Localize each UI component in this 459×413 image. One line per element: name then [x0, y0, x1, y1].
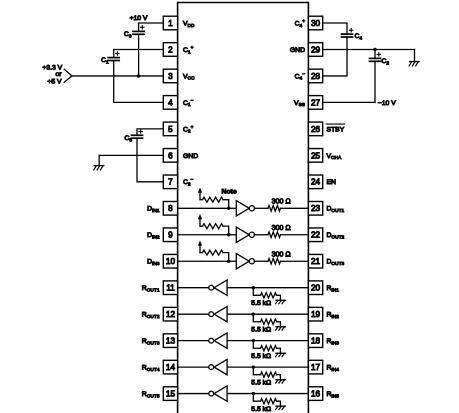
pin 27 label VSS [294, 100, 305, 108]
wire R to pin22 [281, 234, 309, 236]
svg-text:5.5 kΩ: 5.5 kΩ [251, 300, 271, 307]
pin 30 label C4+ [295, 19, 306, 28]
wire pin5 to C5 [137, 129, 163, 135]
receiver U1-R2 (inverting buffer) [209, 306, 227, 321]
pin 2 label C1+ [183, 46, 194, 55]
capacitor C1 polarity + [116, 52, 119, 55]
svg-text:30: 30 [311, 19, 321, 28]
ground (receiver 4) [276, 380, 286, 383]
pin 5 box [163, 122, 177, 136]
wire pin6 GND to ground [99, 154, 163, 156]
svg-text:STBY: STBY [327, 126, 345, 133]
resistor 5.5kohm (receiver 4) [253, 367, 280, 380]
svg-text:GND: GND [290, 47, 305, 54]
pin 16 box [308, 387, 322, 401]
pin 22 box [308, 228, 322, 242]
resistor 300ohm label (driver 1) [272, 197, 291, 205]
capacitor C3 polarity + [141, 26, 144, 29]
pin 23 box [308, 201, 322, 215]
wire pin18 to receiver input [227, 340, 308, 342]
svg-text:14: 14 [166, 363, 176, 372]
junction receiver 3 input [252, 339, 255, 342]
wire pin30 to C4 [323, 23, 347, 34]
pin 26 box [308, 122, 322, 136]
pin 7 box [163, 175, 177, 189]
ground (receiver 2) [276, 327, 286, 330]
svg-text:21: 21 [311, 257, 321, 266]
svg-text:9: 9 [168, 231, 173, 240]
receiver U1-R4 (inverting buffer) [209, 359, 227, 374]
svg-text:300 Ω: 300 Ω [272, 250, 291, 258]
pin 8 box [163, 201, 177, 215]
capacitor C2 polarity + [377, 53, 380, 56]
pin 28 label C4- [295, 72, 306, 81]
resistor 5.5kohm label (receiver 5) [251, 406, 271, 413]
svg-text:11: 11 [166, 284, 175, 293]
svg-text:ROUT4: ROUT4 [142, 365, 160, 373]
net label +5V [47, 78, 62, 85]
wire R to pin23 [281, 207, 309, 209]
pin 24 label EN [327, 179, 337, 186]
wire C1 bottom to pin 4 [114, 61, 164, 103]
pin 14 label ROUT4 [142, 365, 160, 373]
wire pin20 to receiver input [227, 287, 308, 289]
pin 12 box [163, 307, 177, 321]
net label or [55, 71, 62, 78]
wire receiver 5 output to pin15 [178, 393, 209, 395]
svg-text:26: 26 [311, 125, 321, 134]
resistor 300ohm (driver 2) [268, 232, 281, 238]
pin 1 label VDD [183, 20, 195, 28]
resistor 5.5kohm label (receiver 2) [251, 326, 271, 333]
capacitor C4 [342, 34, 353, 37]
pin 17 box [308, 360, 322, 374]
pin 13 label ROUT3 [142, 338, 160, 346]
svg-text:300 Ω: 300 Ω [272, 197, 291, 205]
svg-text:2: 2 [168, 45, 173, 54]
svg-text:12: 12 [166, 310, 176, 319]
pin 11 label ROUT1 [142, 285, 160, 293]
wire pin16 to receiver input [227, 393, 308, 395]
junction driver 2 input [227, 233, 230, 236]
capacitor C4 label [355, 33, 363, 41]
wire pin27 VSS [323, 101, 375, 103]
pin 20 label RIN1 [327, 285, 340, 293]
pin 15 label ROUT5 [142, 391, 160, 399]
wire driver 3 output to R [255, 260, 269, 262]
svg-text:DIN1: DIN1 [147, 206, 160, 214]
pin 1 box [163, 16, 177, 30]
wire pin10 to driver input [178, 260, 237, 262]
pin 4 box [163, 96, 177, 110]
pin 3 label VCC [183, 73, 195, 81]
svg-text:5.5 kΩ: 5.5 kΩ [251, 353, 271, 360]
ground (receiver 3) [276, 353, 286, 356]
wire receiver 1 output to pin11 [178, 287, 209, 289]
svg-text:3: 3 [168, 72, 173, 81]
pullup arrow (driver 1) [198, 187, 202, 199]
svg-text:C2−: C2− [183, 178, 194, 187]
resistor 5.5kohm label (receiver 1) [251, 300, 271, 307]
svg-text:7: 7 [168, 178, 173, 187]
svg-text:VCC: VCC [183, 73, 195, 81]
driver U1-D1 (inverting buffer) [236, 201, 254, 216]
wire pin19 to receiver input [227, 313, 308, 315]
resistor 5.5kohm (receiver 5) [253, 394, 280, 407]
svg-text:C1: C1 [101, 57, 109, 65]
svg-text:C1−: C1− [183, 99, 194, 108]
svg-text:20: 20 [311, 284, 321, 293]
pin 15 box [163, 387, 177, 401]
capacitor C2 [370, 58, 381, 61]
resistor 300ohm label (driver 3) [272, 250, 291, 258]
svg-text:300 Ω: 300 Ω [272, 224, 291, 232]
wire driver 2 output to R [255, 234, 269, 236]
svg-text:RIN3: RIN3 [327, 338, 340, 346]
pin 11 box [163, 281, 177, 295]
wire pin9 to driver input [178, 234, 237, 236]
wire pin29 GND to ground [323, 48, 415, 50]
pin 29 box [308, 43, 322, 57]
resistor 5.5kohm (receiver 1) [253, 288, 280, 301]
svg-text:−10 V: −10 V [378, 100, 396, 107]
svg-text:ROUT3: ROUT3 [142, 338, 160, 346]
svg-text:EN: EN [327, 179, 337, 186]
pin 10 box [163, 254, 177, 268]
svg-text:22: 22 [311, 231, 321, 240]
pin 21 box [308, 254, 322, 268]
pin 22 label DOUT2 [327, 232, 345, 240]
resistor 300ohm (driver 3) [268, 258, 281, 264]
pin 23 label DOUT1 [327, 206, 345, 214]
capacitor C3 [133, 31, 144, 34]
resistor 5.5kohm (receiver 3) [253, 341, 280, 354]
pin 21 label DOUT3 [327, 259, 345, 267]
svg-text:C5: C5 [124, 135, 132, 143]
capacitor C1 label [101, 57, 109, 65]
wire C3 bottom to VCC line [138, 34, 140, 76]
junction receiver 1 input [252, 286, 255, 289]
pullup resistor (driver 2, see Note) [200, 224, 229, 235]
receiver U1-R5 (inverting buffer) [209, 386, 227, 401]
supply fork symbol [64, 69, 72, 82]
wire pin8 to driver input [178, 207, 237, 209]
svg-text:5.5 kΩ: 5.5 kΩ [251, 379, 271, 386]
junction C3/VCC [137, 74, 140, 77]
ground (receiver 1) [276, 300, 286, 303]
wire C4 bottom to pin 28 [323, 37, 347, 76]
svg-text:1: 1 [168, 19, 173, 28]
pin 29 label GND [290, 47, 305, 54]
note label [222, 188, 237, 195]
svg-text:C2+: C2+ [183, 125, 194, 134]
svg-text:VDD: VDD [183, 20, 195, 28]
wire receiver 3 output to pin13 [178, 340, 209, 342]
capacitor C2 label [382, 58, 390, 66]
wire driver 1 output to R [255, 207, 269, 209]
svg-text:C4+: C4+ [295, 19, 306, 28]
svg-text:13: 13 [166, 337, 176, 346]
capacitor C4 polarity + [350, 29, 353, 32]
ground (receiver 5) [276, 406, 286, 409]
svg-text:25: 25 [311, 151, 321, 160]
pin 25 label VCHA [327, 153, 342, 161]
svg-text:RIN1: RIN1 [327, 285, 340, 293]
svg-text:RIN5: RIN5 [327, 391, 340, 399]
pin 16 label RIN5 [327, 391, 340, 399]
svg-text:C4: C4 [355, 33, 363, 41]
svg-text:19: 19 [311, 310, 321, 319]
wire pin17 to receiver input [227, 366, 308, 368]
pin 30 box [308, 16, 322, 30]
ground (left, pin 6) [94, 155, 104, 170]
pullup resistor (driver 3, see Note) [200, 250, 229, 261]
svg-text:29: 29 [311, 45, 321, 54]
capacitor C5 polarity + [139, 130, 142, 133]
pin 19 box [308, 307, 322, 321]
svg-text:+10 V: +10 V [130, 15, 148, 22]
svg-text:4: 4 [168, 98, 173, 107]
wire C2 bottom to VSS line [374, 61, 376, 102]
pin 9 label DIN2 [147, 232, 160, 240]
svg-text:VCHA: VCHA [327, 153, 342, 161]
svg-text:RIN4: RIN4 [327, 365, 340, 373]
pin 20 box [308, 281, 322, 295]
pullup arrow (driver 2) [198, 214, 202, 226]
resistor 5.5kohm label (receiver 4) [251, 379, 271, 386]
svg-text:8: 8 [168, 204, 173, 213]
svg-text:5.5 kΩ: 5.5 kΩ [251, 326, 271, 333]
svg-text:DOUT1: DOUT1 [327, 206, 345, 214]
svg-text:27: 27 [311, 98, 321, 107]
pin 7 label C2- [183, 178, 194, 187]
pin 10 label DIN3 [147, 259, 160, 267]
pin 6 box [163, 149, 177, 163]
pin 18 label RIN3 [327, 338, 340, 346]
wire GND line to C2 top [374, 49, 376, 58]
pin 13 box [163, 334, 177, 348]
svg-text:C2: C2 [382, 58, 390, 66]
svg-text:10: 10 [166, 257, 176, 266]
pin 25 box [308, 149, 322, 163]
pin 14 box [163, 360, 177, 374]
svg-text:or: or [55, 71, 62, 78]
svg-text:C1+: C1+ [183, 46, 194, 55]
svg-text:18: 18 [311, 337, 321, 346]
net label -10V [378, 100, 396, 107]
pin 8 label DIN1 [147, 206, 160, 214]
receiver U1-R3 (inverting buffer) [209, 333, 227, 348]
junction GND/C2 [373, 48, 376, 51]
pin 26 label STBY [326, 124, 344, 133]
ground (right, pin 29) [409, 49, 419, 65]
svg-text:GND: GND [183, 153, 198, 160]
svg-text:5.5 kΩ: 5.5 kΩ [251, 406, 271, 413]
svg-text:Note: Note [222, 188, 237, 195]
wire pin1 to C3 top [139, 23, 164, 31]
receiver U1-R1 (inverting buffer) [209, 280, 227, 295]
svg-text:16: 16 [311, 389, 321, 398]
net label +10V [130, 15, 148, 22]
pin 6 label GND [183, 153, 198, 160]
capacitor C5 [132, 135, 143, 138]
svg-text:ROUT2: ROUT2 [142, 312, 160, 320]
svg-text:+5 V: +5 V [47, 78, 62, 85]
svg-text:5: 5 [168, 125, 173, 134]
pin 2 box [163, 43, 177, 57]
svg-text:24: 24 [311, 178, 321, 187]
driver U1-D3 (inverting buffer) [236, 254, 254, 269]
junction receiver 2 input [252, 312, 255, 315]
pin 5 label C2+ [183, 125, 194, 134]
wire receiver 4 output to pin14 [178, 366, 209, 368]
svg-text:ROUT1: ROUT1 [142, 285, 160, 293]
driver U1-D2 (inverting buffer) [236, 227, 254, 242]
wire receiver 2 output to pin12 [178, 313, 209, 315]
capacitor C3 label [124, 31, 132, 39]
resistor 300ohm (driver 1) [268, 205, 281, 211]
svg-text:23: 23 [311, 204, 321, 213]
svg-text:DIN2: DIN2 [147, 232, 160, 240]
junction driver 3 input [227, 260, 230, 263]
IC body U1 (30-pin transceiver outline) [178, 3, 309, 413]
resistor 5.5kohm (receiver 2) [253, 314, 280, 327]
pin 24 box [308, 175, 322, 189]
svg-text:17: 17 [311, 363, 321, 372]
svg-text:DOUT3: DOUT3 [327, 259, 345, 267]
svg-text:VSS: VSS [294, 100, 305, 108]
pin 12 label ROUT2 [142, 312, 160, 320]
svg-text:C4−: C4− [295, 72, 306, 81]
svg-text:6: 6 [168, 151, 173, 160]
svg-text:ROUT5: ROUT5 [142, 391, 160, 399]
wire R to pin21 [281, 260, 309, 262]
svg-text:RIN2: RIN2 [327, 312, 340, 320]
svg-text:15: 15 [166, 389, 176, 398]
svg-text:C3: C3 [124, 31, 132, 39]
resistor 300ohm label (driver 2) [272, 224, 291, 232]
pin 19 label RIN2 [327, 312, 340, 320]
wire VCC supply to pin 3 [72, 75, 163, 77]
pin 28 box [308, 69, 322, 83]
svg-text:28: 28 [311, 72, 321, 81]
resistor 5.5kohm label (receiver 3) [251, 353, 271, 360]
pin 3 box [163, 69, 177, 83]
pullup resistor (driver 1, see Note) [200, 197, 229, 208]
pin 17 label RIN4 [327, 365, 340, 373]
net label +3.3V [42, 65, 62, 72]
wire C5 bottom to pin 7 [137, 138, 163, 182]
pin 18 box [308, 334, 322, 348]
junction receiver 5 input [252, 392, 255, 395]
pullup arrow (driver 3) [198, 240, 202, 252]
svg-text:DOUT2: DOUT2 [327, 232, 345, 240]
junction receiver 4 input [252, 365, 255, 368]
capacitor C5 label [124, 135, 132, 143]
pin 4 label C1- [183, 99, 194, 108]
wire pin2 to C1 [114, 49, 164, 57]
junction driver 1 input [227, 207, 230, 210]
capacitor C1 [108, 58, 119, 61]
pin 9 box [163, 228, 177, 242]
pin 27 box [308, 96, 322, 110]
svg-text:DIN3: DIN3 [147, 259, 160, 267]
